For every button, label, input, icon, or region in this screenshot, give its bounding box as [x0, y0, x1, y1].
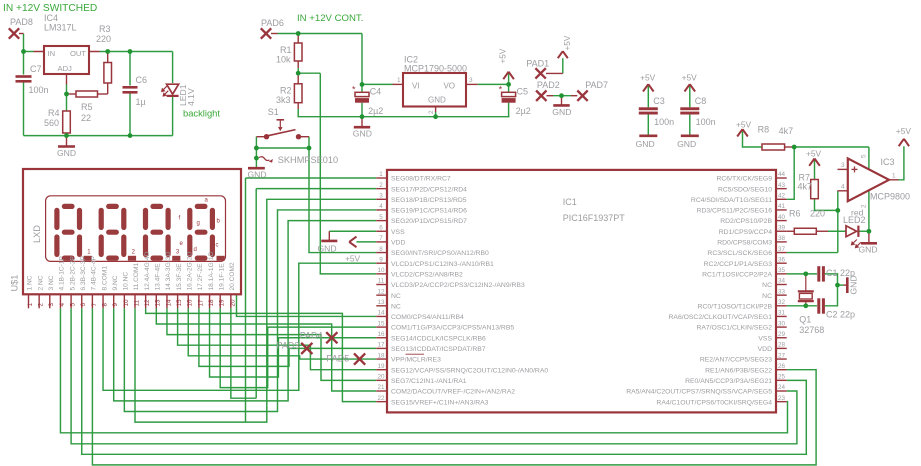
svg-text:3 NC: 3 NC	[48, 275, 55, 290]
svg-text:GND: GND	[552, 107, 571, 117]
svg-text:25: 25	[778, 374, 786, 381]
svg-text:13: 13	[377, 299, 385, 306]
svg-text:VPP/MCLR/RE3: VPP/MCLR/RE3	[391, 357, 441, 364]
svg-text:PAD1: PAD1	[526, 59, 549, 69]
svg-text:10k: 10k	[276, 55, 291, 65]
svg-text:NC: NC	[391, 293, 401, 300]
svg-text:12: 12	[144, 299, 151, 307]
svg-text:GND: GND	[849, 275, 859, 294]
svg-text:24: 24	[778, 384, 786, 391]
svg-text:+5V: +5V	[640, 73, 656, 83]
svg-text:13: 13	[155, 299, 162, 307]
svg-text:SEG18/P1B/CPS13/RD5: SEG18/P1B/CPS13/RD5	[391, 197, 467, 204]
svg-text:VDD: VDD	[391, 240, 405, 247]
svg-text:RC5/SDO/SEG10: RC5/SDO/SEG10	[718, 186, 772, 193]
svg-text:COM0/CPS4/AN11/RB4: COM0/CPS4/AN11/RB4	[391, 314, 464, 321]
svg-text:19: 19	[377, 363, 385, 370]
svg-text:37: 37	[778, 246, 786, 253]
svg-text:10: 10	[377, 267, 385, 274]
svg-text:3: 3	[841, 162, 845, 169]
svg-text:12.4A-4G-4D: 12.4A-4G-4D	[144, 251, 151, 290]
svg-text:8: 8	[379, 246, 383, 253]
svg-text:7.4B-4C-4P: 7.4B-4C-4P	[91, 255, 98, 290]
svg-text:GND: GND	[318, 244, 337, 254]
svg-text:15: 15	[377, 320, 385, 327]
svg-text:RC2/CCP1/P1A/SEG3: RC2/CCP1/P1A/SEG3	[704, 261, 773, 268]
svg-text:41: 41	[778, 203, 786, 210]
svg-text:14.3A-3G-3D: 14.3A-3G-3D	[165, 251, 172, 290]
svg-text:C5: C5	[517, 87, 529, 97]
svg-text:PAD5: PAD5	[326, 354, 349, 364]
svg-text:4: 4	[841, 184, 845, 191]
svg-text:*: *	[352, 85, 356, 95]
svg-text:3: 3	[48, 303, 55, 307]
svg-text:RC0/T1OSO/T1CKI/P2B: RC0/T1OSO/T1CKI/P2B	[698, 303, 773, 310]
svg-text:15: 15	[176, 299, 183, 307]
svg-text:21: 21	[377, 384, 385, 391]
svg-text:GND: GND	[57, 148, 76, 158]
svg-text:RC3/SCL/SCK/SEG6: RC3/SCL/SCK/SEG6	[707, 250, 772, 257]
svg-text:220: 220	[810, 209, 825, 219]
svg-text:32768: 32768	[799, 325, 824, 335]
svg-text:4.1B-1C-1P: 4.1B-1C-1P	[59, 255, 66, 290]
svg-text:RD0/CPS8/COM3: RD0/CPS8/COM3	[717, 240, 772, 247]
svg-text:6.3B-3C-3P: 6.3B-3C-3P	[80, 255, 87, 290]
svg-text:NC: NC	[391, 303, 401, 310]
svg-text:MCP9800: MCP9800	[870, 192, 910, 202]
svg-text:*: *	[499, 85, 503, 95]
svg-text:4k7: 4k7	[779, 126, 794, 136]
svg-text:3: 3	[469, 77, 473, 84]
svg-text:PAD8: PAD8	[10, 17, 33, 27]
svg-text:COM1/T1G/P3A/CCP3/CPS5/AN13/RB: COM1/T1G/P3A/CCP3/CPS5/AN13/RB5	[391, 325, 514, 332]
svg-text:COM2/DACOUT/VREF-/C2IN+/AN2/RA: COM2/DACOUT/VREF-/C2IN+/AN2/RA2	[391, 389, 515, 396]
svg-text:20: 20	[229, 299, 236, 307]
svg-text:SEG12/VCAP/SS/SRNQ/C2OUT/C12IN: SEG12/VCAP/SS/SRNQ/C2OUT/C12IN0-/AN0/RA0	[391, 367, 548, 374]
svg-text:IN: IN	[48, 49, 56, 58]
svg-text:16: 16	[377, 331, 385, 338]
svg-text:PAD6: PAD6	[261, 18, 284, 28]
svg-text:27: 27	[778, 352, 786, 359]
svg-text:5: 5	[70, 303, 77, 307]
svg-text:C2: C2	[826, 310, 838, 320]
svg-text:VSS: VSS	[391, 229, 405, 236]
svg-text:R1: R1	[280, 45, 292, 55]
svg-text:C7: C7	[30, 64, 42, 74]
svg-text:SEG15/VREF+/C1IN+/AN3/RA3: SEG15/VREF+/C1IN+/AN3/RA3	[391, 399, 489, 406]
svg-text:2: 2	[38, 303, 45, 307]
svg-text:RE1/AN6/P3B/SEG22: RE1/AN6/P3B/SEG22	[705, 367, 772, 374]
svg-text:100n: 100n	[29, 85, 49, 95]
svg-text:d: d	[194, 247, 197, 253]
svg-text:R8: R8	[758, 125, 770, 135]
svg-text:33: 33	[778, 288, 786, 295]
svg-text:C3: C3	[653, 96, 665, 106]
svg-text:PIC16F1937PT: PIC16F1937PT	[563, 213, 626, 223]
svg-text:+5V: +5V	[736, 120, 752, 130]
svg-text:18: 18	[208, 299, 215, 307]
svg-text:6: 6	[379, 224, 383, 231]
svg-text:1 NC: 1 NC	[27, 275, 34, 290]
svg-text:RA6/OSC2/CLKOUT/VCAP/SEG1: RA6/OSC2/CLKOUT/VCAP/SEG1	[669, 314, 773, 321]
svg-text:GND: GND	[248, 170, 267, 180]
svg-text:+5V: +5V	[682, 73, 698, 83]
svg-text:R6: R6	[789, 209, 801, 219]
svg-text:R3: R3	[99, 24, 111, 34]
svg-text:VLCD3/P2A/CCP2/CPS3/C12IN2-/AN: VLCD3/P2A/CCP2/CPS3/C12IN2-/AN9/RB3	[391, 282, 525, 289]
svg-text:RA5/AN4/C2OUT/CPS7/SRNQ/SS/VCA: RA5/AN4/C2OUT/CPS7/SRNQ/SS/VCAP/SEG5	[626, 389, 772, 396]
svg-text:32: 32	[778, 299, 786, 306]
svg-text:+5V: +5V	[563, 35, 572, 50]
svg-text:1: 1	[27, 303, 34, 307]
svg-text:39: 39	[778, 224, 786, 231]
svg-text:RD2/CPS10/P2B: RD2/CPS10/P2B	[720, 218, 772, 225]
svg-text:RE0/AN5/CCP3/P3A/SEG21: RE0/AN5/CCP3/P3A/SEG21	[685, 378, 772, 385]
svg-text:S1: S1	[268, 107, 279, 117]
svg-text:7: 7	[379, 235, 383, 242]
svg-text:4.1V: 4.1V	[186, 88, 196, 106]
svg-text:+5V: +5V	[896, 126, 912, 136]
svg-text:11: 11	[133, 299, 140, 306]
svg-text:29: 29	[778, 331, 786, 338]
svg-text:2 NC: 2 NC	[37, 275, 44, 290]
svg-text:SEG14/ICDCLK/ICSPCLK/RB6: SEG14/ICDCLK/ICSPCLK/RB6	[391, 335, 486, 342]
svg-text:ADJ: ADJ	[58, 64, 73, 73]
svg-text:g: g	[197, 221, 200, 227]
svg-text:1µ: 1µ	[136, 97, 146, 107]
svg-text:GND: GND	[636, 139, 655, 149]
svg-text:5.2B-2C-2P: 5.2B-2C-2P	[69, 255, 76, 290]
svg-text:1: 1	[892, 173, 896, 180]
svg-text:GND: GND	[677, 139, 696, 149]
svg-text:1: 1	[397, 77, 401, 84]
svg-text:16: 16	[187, 299, 194, 307]
svg-text:22: 22	[377, 395, 385, 402]
svg-text:SEG13/ICDDAT/ICSPDAT/RB7: SEG13/ICDDAT/ICSPDAT/RB7	[391, 346, 486, 353]
svg-text:IC3: IC3	[881, 157, 895, 167]
svg-text:3k3: 3k3	[276, 95, 291, 105]
svg-text:C6: C6	[136, 75, 148, 85]
svg-text:LED2: LED2	[843, 215, 866, 225]
svg-text:+5V: +5V	[499, 48, 508, 63]
svg-text:VLCD2/CPS2/AN8/RB2: VLCD2/CPS2/AN8/RB2	[391, 271, 463, 278]
svg-text:30: 30	[778, 320, 786, 327]
svg-text:+5V: +5V	[806, 149, 822, 159]
svg-text:12: 12	[377, 288, 385, 295]
svg-text:16.2A-2G-2D: 16.2A-2G-2D	[186, 251, 193, 290]
svg-text:8: 8	[101, 303, 108, 307]
svg-text:backlight: backlight	[183, 108, 220, 119]
svg-text:9: 9	[112, 303, 119, 307]
svg-text:OUT: OUT	[70, 49, 86, 58]
svg-text:6: 6	[80, 303, 87, 307]
svg-text:PAD7: PAD7	[585, 80, 608, 90]
svg-text:28: 28	[778, 342, 786, 349]
svg-text:RD1/CPS9/CCP4: RD1/CPS9/CCP4	[719, 229, 772, 236]
svg-text:IC1: IC1	[563, 197, 577, 207]
svg-text:Q1: Q1	[799, 315, 811, 325]
svg-text:PAD2: PAD2	[537, 80, 560, 90]
svg-text:C8: C8	[695, 96, 707, 106]
svg-text:2µ2: 2µ2	[368, 106, 383, 116]
svg-text:VDD: VDD	[758, 346, 772, 353]
svg-text:13.4F-4E: 13.4F-4E	[155, 263, 162, 291]
svg-text:44: 44	[778, 171, 786, 178]
svg-text:C4: C4	[370, 87, 382, 97]
svg-text:SEG17/P2D/CPS12/RD4: SEG17/P2D/CPS12/RD4	[391, 186, 467, 193]
svg-text:17: 17	[377, 342, 385, 349]
svg-text:RC4/SDI/SDA/T1G/SEG11: RC4/SDI/SDA/T1G/SEG11	[691, 197, 772, 204]
svg-text:4k7: 4k7	[798, 182, 813, 192]
svg-text:7: 7	[91, 303, 98, 307]
svg-text:20.COM2: 20.COM2	[229, 262, 236, 291]
svg-text:34: 34	[778, 278, 786, 285]
svg-text:SEG08/DT/RX/RC7: SEG08/DT/RX/RC7	[391, 176, 451, 183]
svg-text:NC: NC	[762, 293, 772, 300]
svg-text:+5V: +5V	[345, 254, 361, 264]
svg-text:18.1A-1G-1D: 18.1A-1G-1D	[208, 251, 215, 290]
svg-text:38: 38	[778, 235, 786, 242]
svg-text:17.2F-2E: 17.2F-2E	[197, 263, 204, 291]
svg-text:42: 42	[778, 193, 786, 200]
svg-text:14: 14	[377, 310, 385, 317]
svg-text:22p: 22p	[840, 310, 855, 320]
svg-text:23: 23	[778, 395, 786, 402]
svg-text:10.NC: 10.NC	[123, 272, 130, 291]
svg-text:C1: C1	[826, 268, 838, 278]
svg-text:18: 18	[377, 352, 385, 359]
svg-text:VSS: VSS	[758, 335, 772, 342]
svg-text:40: 40	[778, 214, 786, 221]
svg-text:NC: NC	[762, 282, 772, 289]
svg-text:1: 1	[379, 171, 383, 178]
svg-text:11.COM1: 11.COM1	[133, 262, 140, 290]
svg-text:4: 4	[379, 203, 383, 210]
svg-text:PAD3: PAD3	[277, 341, 300, 351]
svg-text:RC6/TX/CK/SEG9: RC6/TX/CK/SEG9	[716, 176, 772, 183]
svg-text:c: c	[216, 243, 219, 249]
svg-text:GND: GND	[428, 96, 446, 105]
svg-text:RA7/OSC1/CLKIN/SEG2: RA7/OSC1/CLKIN/SEG2	[696, 325, 772, 332]
svg-text:43: 43	[778, 182, 786, 189]
svg-text:5: 5	[379, 214, 383, 221]
svg-text:VLCD1/CPS1/C12IN3-/AN10/RB1: VLCD1/CPS1/C12IN3-/AN10/RB1	[391, 261, 494, 268]
svg-text:IC4: IC4	[44, 13, 58, 23]
svg-text:35: 35	[778, 267, 786, 274]
svg-text:2: 2	[428, 110, 435, 114]
svg-text:LM317L: LM317L	[44, 23, 77, 33]
svg-text:GND: GND	[859, 244, 878, 254]
svg-text:R2: R2	[280, 86, 292, 96]
svg-text:9.NC: 9.NC	[112, 275, 119, 290]
svg-text:SEG7/C12IN1-/AN1/RA1: SEG7/C12IN1-/AN1/RA1	[391, 378, 467, 385]
svg-text:RC1/T1OSI/CCP2/P2A: RC1/T1OSI/CCP2/P2A	[702, 271, 772, 278]
svg-text:100n: 100n	[696, 117, 716, 127]
svg-text:31: 31	[778, 310, 786, 317]
svg-text:GND: GND	[353, 129, 372, 139]
svg-text:RD3/CPS11/P2C/SEG16: RD3/CPS11/P2C/SEG16	[697, 208, 773, 215]
svg-text:100n: 100n	[654, 117, 674, 127]
svg-text:SEG19/P1C/CPS14/RD6: SEG19/P1C/CPS14/RD6	[391, 208, 467, 215]
svg-text:560: 560	[44, 118, 59, 128]
svg-text:PAD4: PAD4	[300, 331, 323, 341]
svg-text:MCP1790-5000: MCP1790-5000	[404, 64, 467, 74]
svg-text:4: 4	[59, 303, 66, 307]
svg-text:LXD: LXD	[32, 225, 42, 243]
svg-text:14: 14	[165, 299, 172, 307]
svg-text:5: 5	[861, 154, 868, 158]
svg-text:15.3F-3E: 15.3F-3E	[176, 263, 183, 291]
svg-text:RA4/C1OUT/CPS6/T0CKI/SRQ/SEG4: RA4/C1OUT/CPS6/T0CKI/SRQ/SEG4	[656, 399, 772, 406]
svg-text:SKHMPSE010: SKHMPSE010	[278, 155, 338, 165]
svg-text:9: 9	[379, 256, 383, 263]
svg-text:17: 17	[197, 299, 204, 307]
svg-text:SEG20/P1D/CPS15/RD7: SEG20/P1D/CPS15/RD7	[391, 218, 467, 225]
svg-text:RE2/AN7/CCP5/SEG23: RE2/AN7/CCP5/SEG23	[700, 357, 772, 364]
svg-text:U$1: U$1	[10, 275, 20, 292]
svg-text:IN +12V CONT.: IN +12V CONT.	[297, 13, 363, 24]
svg-text:SEG0/INT/SRI/CPS0/AN12/RB0: SEG0/INT/SRI/CPS0/AN12/RB0	[391, 250, 489, 257]
svg-text:20: 20	[377, 374, 385, 381]
svg-text:26: 26	[778, 363, 786, 370]
svg-text:22: 22	[81, 113, 91, 123]
svg-text:3: 3	[379, 193, 383, 200]
svg-text:R5: R5	[81, 102, 93, 112]
svg-text:VO: VO	[443, 82, 455, 91]
svg-text:R4: R4	[48, 108, 60, 118]
svg-text:36: 36	[778, 256, 786, 263]
svg-text:VI: VI	[412, 82, 420, 91]
svg-text:2µ2: 2µ2	[516, 106, 531, 116]
svg-text:8.COM1: 8.COM1	[101, 266, 108, 291]
svg-text:10: 10	[123, 299, 130, 307]
svg-text:19.1F-1E: 19.1F-1E	[218, 263, 225, 291]
svg-text:220: 220	[96, 34, 111, 44]
svg-text:2: 2	[379, 182, 383, 189]
svg-text:11: 11	[378, 278, 385, 285]
svg-text:19: 19	[219, 299, 226, 307]
